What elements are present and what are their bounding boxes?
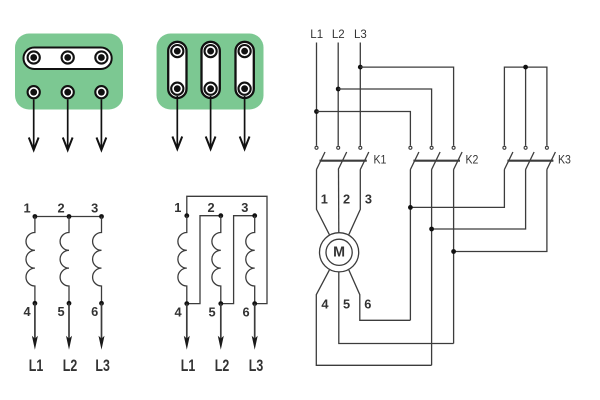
- svg-text:2: 2: [343, 192, 350, 207]
- svg-text:5: 5: [343, 297, 350, 312]
- supply arrow L3 (delta): [252, 304, 258, 350]
- supply arrow L1 (delta): [184, 304, 190, 350]
- svg-text:K2: K2: [466, 154, 479, 167]
- wire link node3 to node5: [221, 216, 255, 304]
- junction K2/K3 pole1: [408, 205, 413, 210]
- wire L3 vertical: [359, 43, 361, 146]
- svg-text:L2: L2: [332, 29, 345, 41]
- svg-text:4: 4: [321, 297, 329, 312]
- wire L3 branch to K2 pole3: [360, 67, 453, 146]
- K2 linkage bar: [413, 160, 460, 162]
- junction K3 bus middle: [523, 65, 528, 70]
- terminal TB2 bottom 2: [205, 83, 217, 95]
- wire link node1 to node6 (top loop): [187, 196, 267, 303]
- terminal TB1 bottom 1: [28, 86, 40, 98]
- junction L1 branch: [314, 109, 319, 114]
- wire L1 vertical: [316, 43, 318, 146]
- winding W2 (delta): [212, 216, 221, 304]
- delta link bar 1 (vertical jumper): [168, 42, 186, 98]
- delta link bar 3 (vertical jumper): [236, 42, 254, 98]
- contactor K2 pole 3: [452, 146, 462, 169]
- wire L1 branch to K2 pole1: [317, 112, 411, 146]
- node 1 (star): [33, 214, 38, 219]
- winding W1 (star): [26, 217, 35, 304]
- node 5 (delta): [218, 301, 223, 306]
- node 4 (star): [33, 301, 38, 306]
- contactor K1 pole 1: [315, 146, 325, 169]
- contactor K3 pole 3: [545, 146, 555, 169]
- K1 linkage bar: [320, 160, 367, 162]
- terminal TB2 bottom 3: [239, 83, 251, 95]
- node 2 (delta): [218, 213, 223, 218]
- winding W1 (delta): [178, 216, 187, 304]
- wire motor terminal 6 down: [349, 270, 411, 320]
- star point bus wire: [35, 216, 102, 218]
- terminal TB1 bottom 3: [95, 86, 107, 98]
- wire K1 pole3 to motor terminal 3: [349, 170, 361, 235]
- junction L2 branch: [336, 87, 341, 92]
- wire K3 star bus: [504, 67, 547, 146]
- terminal block TB1 (star jumper block): [15, 34, 123, 110]
- motor M (inner circle): [326, 239, 352, 265]
- junction K2/K3 pole3: [451, 249, 456, 254]
- node 3 (star): [99, 214, 104, 219]
- svg-text:K3: K3: [558, 154, 571, 167]
- winding W3 (star): [93, 217, 102, 304]
- svg-text:M: M: [333, 245, 345, 261]
- wire motor terminal 5 down: [339, 272, 454, 344]
- contactor K3 pole 2: [524, 146, 534, 169]
- winding W2 (star): [60, 217, 69, 304]
- wire K1 pole2 to motor terminal 2: [338, 170, 340, 234]
- winding W3 (delta): [246, 216, 255, 304]
- contactor K1 pole 3: [359, 146, 369, 169]
- node 6 (star): [99, 301, 104, 306]
- wire K3 middle pole feed: [525, 67, 527, 146]
- wire K1 pole1 to motor terminal 1: [317, 170, 330, 235]
- svg-text:3: 3: [365, 192, 372, 207]
- wire K3 pole3 output: [454, 170, 547, 252]
- wire K3 pole1 output: [410, 170, 504, 208]
- contactor K1 pole 2: [337, 146, 347, 169]
- contactor K2 pole 1: [409, 146, 419, 169]
- terminal TB1 top 1: [28, 51, 40, 63]
- terminal TB2 bottom 1: [171, 83, 183, 95]
- star link bar (jumper across top terminals): [24, 48, 112, 70]
- terminal TB1 bottom 2: [62, 86, 74, 98]
- svg-text:6: 6: [364, 297, 371, 312]
- wire link node2 to node4: [187, 216, 221, 304]
- supply arrow TB2 L2: [206, 96, 216, 149]
- delta link bar 2 (vertical jumper): [202, 42, 220, 98]
- wire L2 vertical: [337, 43, 339, 146]
- supply arrow L3 (star): [99, 303, 105, 350]
- wire K2 pole1 output: [409, 170, 411, 321]
- junction L3 branch: [358, 65, 363, 70]
- node 3 (delta): [252, 213, 257, 218]
- svg-text:K1: K1: [374, 154, 387, 167]
- supply arrow TB1 L1: [29, 100, 39, 151]
- supply arrow TB2 L1: [172, 96, 182, 149]
- wire motor terminal 4 down: [316, 270, 431, 365]
- motor M (outer circle): [320, 233, 359, 272]
- wire K2 pole3 output: [453, 170, 455, 344]
- terminal TB2 top 2: [205, 45, 217, 57]
- wire K3 pole2 output: [432, 170, 526, 230]
- K3 linkage bar: [507, 160, 553, 162]
- wire L2 branch to K2 pole2: [338, 89, 431, 146]
- contactor K3 pole 1: [503, 146, 513, 169]
- terminal block TB2 (delta jumper block): [157, 34, 264, 110]
- node 6 (delta): [252, 301, 257, 306]
- terminal TB2 top 1: [171, 45, 183, 57]
- contactor K2 pole 2: [430, 146, 440, 169]
- node 5 (star): [67, 301, 72, 306]
- terminal TB1 top 3: [95, 51, 107, 63]
- svg-text:L3: L3: [354, 29, 367, 41]
- node 1 (delta): [184, 213, 189, 218]
- supply arrow L2 (star): [66, 303, 72, 350]
- wire K2 pole2 output: [431, 170, 433, 366]
- svg-text:L1: L1: [310, 29, 323, 41]
- svg-text:1: 1: [321, 192, 328, 207]
- supply arrow L2 (delta): [218, 304, 224, 350]
- node 2 (star): [67, 214, 72, 219]
- terminal TB1 top 2: [62, 51, 74, 63]
- supply arrow TB1 L2: [63, 100, 73, 151]
- node 4 (delta): [184, 301, 189, 306]
- supply arrow L1 (star): [32, 303, 38, 350]
- supply arrow TB1 L3: [97, 100, 107, 151]
- supply arrow TB2 L3: [240, 96, 250, 149]
- junction K2/K3 pole2: [429, 227, 434, 232]
- terminal TB2 top 3: [239, 45, 251, 57]
